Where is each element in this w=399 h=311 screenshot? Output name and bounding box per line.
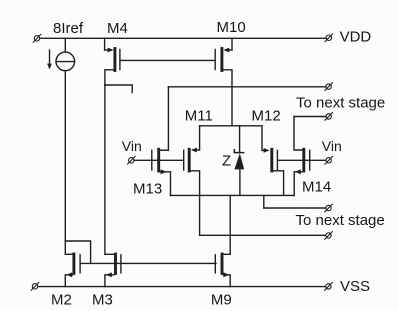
channel M4 (113, 49, 116, 71)
svg-text:M14: M14 (302, 179, 331, 196)
terminal Vin left (128, 156, 136, 164)
wire M4/M10 gate line (121, 59, 215, 61)
wire stub from drain node (105, 85, 132, 93)
gate bar M11 (183, 150, 185, 170)
transistor M14 (294, 117, 331, 196)
zener cathode bar with hook (234, 150, 243, 153)
arrow M4 source (PMOS, into channel) (108, 48, 114, 53)
wire zener bottom lead (239, 169, 241, 195)
wire M11 drain down (191, 171, 200, 236)
svg-text:M2: M2 (51, 292, 72, 309)
wire M9 source (223, 275, 230, 287)
wire M4 drain node to M3 drain (104, 85, 106, 254)
svg-text:VSS: VSS (340, 278, 370, 295)
wire M14 drain up (294, 117, 302, 151)
terminal line 4 (325, 232, 333, 240)
transistor M12 (252, 108, 284, 196)
wire VSS rail (38, 286, 325, 288)
wire M13 source (160, 172, 170, 196)
wire M4 source from rail (104, 38, 106, 50)
wire center node M11/M12 sources (200, 125, 262, 127)
svg-text:Vin: Vin (122, 138, 142, 154)
wire lower node to line 3 (263, 195, 265, 208)
arrow M12 source (PMOS) (264, 148, 270, 153)
terminal 8Iref input (33, 34, 41, 42)
svg-text:M11: M11 (185, 108, 213, 125)
wire M10 source from rail (231, 38, 233, 50)
wire line1 down to M13 drain (160, 87, 168, 150)
channel M14 (302, 149, 305, 171)
arrow M13 source (NMOS, outward) (161, 169, 167, 174)
transistor M9 (211, 254, 232, 309)
zener diode Z (234, 126, 244, 196)
wire M14 source (294, 172, 302, 196)
wire Vin right input line (278, 159, 325, 161)
wire output line 3 (264, 207, 326, 209)
svg-text:M13: M13 (133, 181, 162, 198)
wire M13 drain up (160, 149, 168, 151)
wire M12 drain down (273, 171, 283, 196)
current direction arrow (47, 50, 52, 70)
wire current source to M2 drain (64, 71, 66, 255)
channel M9 (221, 254, 224, 273)
terminal VDD (325, 34, 333, 42)
svg-text:To next stage: To next stage (296, 94, 385, 111)
arrow M11 source (PMOS, into channel) (191, 148, 197, 153)
transistor M10 (215, 19, 245, 126)
arrow M9 source (NMOS) (223, 272, 229, 277)
wire M10 drain (223, 70, 232, 126)
wire zener top lead (239, 126, 241, 152)
terminal To next stage top (325, 83, 333, 91)
wire lower node to M9 drain (229, 195, 231, 254)
svg-text:M10: M10 (217, 19, 246, 36)
wire M2 source (65, 275, 72, 287)
gate bar M4 (119, 50, 121, 70)
terminal VSS left (31, 282, 39, 290)
transistor M4 (105, 20, 128, 85)
gate bar M13 (151, 150, 153, 170)
transistor M13 (133, 149, 171, 197)
svg-text:M9: M9 (211, 292, 232, 309)
wire M2 diode connection jog (65, 241, 90, 263)
wire output line 2 (294, 116, 326, 118)
channel M13 (157, 149, 160, 171)
gate bar M9 (214, 255, 216, 273)
gate bar M12 (276, 150, 278, 170)
current source 8Iref (56, 52, 75, 71)
terminal Vin right (325, 156, 333, 164)
arrow M2 source (NMOS) (66, 272, 72, 277)
wire M2/M3/M9 gate line (81, 262, 216, 264)
transistor M3 (92, 254, 121, 309)
wire M2 drain (65, 253, 72, 255)
channel M3 (114, 254, 117, 273)
zener triangle (234, 153, 244, 169)
transistor M11 (184, 108, 213, 236)
wire M3 source (105, 275, 114, 287)
terminal line 2 (325, 113, 333, 121)
wire output line 4 (200, 234, 326, 236)
wire M11 source up (196, 126, 200, 150)
svg-text:8Iref: 8Iref (53, 20, 84, 37)
channel M12 (270, 149, 273, 171)
arrow M14 source (NMOS, outward) (295, 169, 301, 174)
wire M9 drain (223, 253, 230, 255)
svg-text:Z: Z (222, 153, 231, 170)
arrow M10 source (PMOS, into channel) (223, 48, 229, 53)
gate bar M10 (214, 50, 216, 70)
wire Vin left input line (135, 159, 183, 161)
wire VDD top rail (41, 37, 326, 39)
wire output line 1 (top To next stage) (168, 86, 325, 88)
terminal VSS right (325, 283, 333, 291)
svg-text:To next stage: To next stage (296, 212, 385, 229)
gate bar M2 (79, 255, 81, 273)
wire M12 source up (262, 126, 267, 151)
gate bar M3 (120, 255, 122, 273)
wire lower node line (171, 194, 295, 196)
channel M10 (220, 49, 223, 71)
svg-text:Vin: Vin (322, 138, 342, 154)
channel M11 (188, 149, 191, 171)
wire rail to current source (64, 38, 66, 52)
terminal line 3 (325, 204, 333, 212)
svg-text:VDD: VDD (340, 28, 372, 45)
svg-text:M4: M4 (107, 20, 128, 37)
transistor M2 (51, 254, 80, 309)
gate bar M14 (309, 150, 311, 170)
wire M4 drain (105, 70, 114, 85)
svg-text:M3: M3 (92, 292, 113, 309)
channel M2 (72, 254, 75, 273)
svg-text:M12: M12 (252, 108, 281, 125)
wire M3 drain (105, 253, 114, 255)
arrow M3 source (NMOS) (106, 272, 112, 277)
